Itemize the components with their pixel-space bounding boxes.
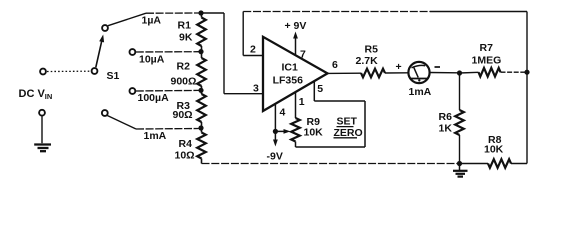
svg-text:1µA: 1µA [142, 15, 162, 27]
input terminal DC VIN + [40, 69, 46, 75]
wire [328, 72, 362, 74]
svg-text:2: 2 [250, 44, 256, 56]
resistor R4 [197, 128, 206, 164]
wire [136, 51, 199, 53]
node R1 top [198, 10, 203, 15]
switch contact 10uA position [130, 49, 136, 55]
label R8 10K [484, 134, 504, 156]
svg-text:LF356: LF356 [273, 75, 304, 87]
label DC VIN [19, 88, 53, 101]
wire [526, 12, 528, 73]
label R7 1MEG [472, 42, 502, 67]
label - (meter polarity) [435, 66, 441, 68]
svg-text:-9V: -9V [267, 151, 283, 163]
wire [243, 55, 263, 57]
svg-text:100µA: 100µA [138, 92, 170, 104]
pin 3 label [253, 83, 259, 95]
wire [224, 93, 263, 95]
resistor R7 [479, 68, 501, 77]
wire [460, 163, 489, 165]
svg-text:R5: R5 [365, 44, 379, 56]
svg-text:10Ω: 10Ω [175, 150, 195, 162]
pin 6 label [332, 59, 338, 71]
svg-text:1MEG: 1MEG [472, 55, 502, 67]
svg-text:2.7K: 2.7K [356, 55, 379, 67]
svg-text:10K: 10K [484, 144, 504, 156]
switch contact 100uA position [130, 88, 136, 94]
wire bottom rail [202, 163, 460, 165]
label +9V [285, 20, 307, 32]
svg-text:5: 5 [317, 83, 323, 95]
pin 4 supply lead [273, 104, 278, 147]
svg-text:900Ω: 900Ω [171, 76, 197, 88]
svg-text:7: 7 [300, 49, 306, 61]
wire [430, 72, 457, 74]
wire [364, 101, 366, 147]
label S1 [107, 70, 120, 82]
node R3-R4 junction [198, 125, 203, 130]
wire [47, 70, 91, 72]
wire [242, 12, 244, 56]
input terminal DC VIN - (ground side) [39, 110, 45, 116]
pin 5 lead [313, 81, 315, 101]
svg-text:1mA: 1mA [409, 86, 432, 98]
pin 5 label [317, 83, 323, 95]
wire [385, 72, 408, 74]
ground [453, 164, 468, 177]
switch contact 1mA position [102, 110, 108, 116]
label 100uA [138, 92, 170, 104]
svg-text:6: 6 [332, 59, 338, 71]
potentiometer R9 [291, 118, 300, 147]
svg-text:10µA: 10µA [139, 54, 165, 66]
svg-text:IC1: IC1 [282, 62, 299, 74]
ground [34, 145, 51, 152]
svg-text:SET: SET [337, 116, 358, 128]
wire [501, 71, 528, 73]
svg-text:90Ω: 90Ω [173, 109, 193, 121]
svg-text:R1: R1 [178, 20, 192, 32]
switch S1 common contact [92, 68, 98, 74]
label R6 1K [439, 111, 453, 135]
node R7 right junction [524, 70, 529, 75]
pin 1 lead [295, 93, 297, 118]
label R4 10ohm [175, 138, 195, 162]
svg-text:R6: R6 [439, 111, 453, 123]
label R2 900ohm [171, 61, 197, 88]
wire right rail [526, 72, 528, 163]
wire [41, 116, 43, 143]
switch S1 arm [96, 35, 104, 68]
svg-text:1K: 1K [439, 123, 453, 135]
wire [314, 100, 365, 102]
svg-text:3: 3 [253, 83, 259, 95]
svg-text:4: 4 [280, 107, 286, 119]
resistor R2 [197, 52, 206, 91]
node R1-R2 junction [198, 49, 203, 54]
resistor R5 [361, 69, 385, 78]
wire [136, 89, 199, 92]
label R9 10K [304, 116, 324, 139]
svg-text:1: 1 [299, 96, 305, 108]
label SET ZERO [334, 116, 363, 139]
wire [460, 71, 479, 74]
svg-text:1mA: 1mA [144, 130, 167, 142]
node ground junction [457, 161, 462, 166]
pin 4 label [280, 107, 286, 119]
label 1uA [142, 15, 162, 27]
wire [107, 116, 198, 130]
pin 7 label [300, 49, 306, 61]
wire [201, 12, 224, 14]
R9 wiper arrow [276, 129, 291, 134]
resistor R3 [197, 90, 206, 128]
meter M1 1mA [408, 62, 429, 83]
label R1 9K [178, 20, 193, 44]
label R3 90ohm [173, 100, 193, 121]
svg-text:S1: S1 [107, 70, 120, 82]
pin 1 label [299, 96, 305, 108]
wire [223, 13, 225, 94]
svg-text:10K: 10K [304, 127, 324, 139]
label -9V [267, 151, 283, 163]
label 1mA [144, 130, 167, 142]
node pin4-wiper junction [273, 129, 278, 134]
wire feedback top rail [243, 11, 527, 13]
resistor R8 [488, 159, 511, 168]
resistor R6 [455, 73, 464, 164]
node A meter-R6-R7 junction [457, 70, 462, 75]
label + (meter polarity) [396, 61, 402, 73]
label R5 2.7K [356, 44, 379, 68]
wire [296, 146, 366, 148]
node R2-R3 junction [198, 88, 203, 93]
pin 7 supply lead [293, 32, 298, 56]
svg-text:ZERO: ZERO [334, 127, 363, 139]
switch contact 1uA position [102, 25, 108, 31]
wire [108, 13, 199, 26]
svg-text:R7: R7 [480, 42, 494, 54]
label 10uA [139, 54, 165, 66]
pin 2 label [250, 44, 256, 56]
wire [511, 163, 527, 165]
svg-text:9K: 9K [179, 32, 193, 44]
label 1mA (meter) [409, 86, 432, 98]
svg-text:R2: R2 [177, 61, 191, 73]
svg-text:R4: R4 [179, 138, 193, 150]
resistor R1 [197, 13, 206, 52]
svg-text:+: + [396, 61, 402, 73]
svg-text:+ 9V: + 9V [285, 20, 307, 32]
op-amp IC1 LF356 [263, 37, 328, 111]
